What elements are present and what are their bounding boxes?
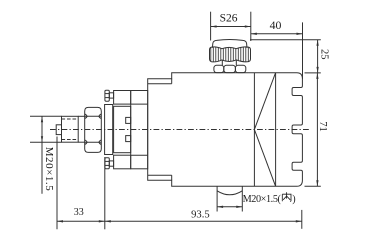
dim M20x1.5 ext bottom <box>30 141 62 143</box>
dim 25 ext top (knob top level) <box>250 39 321 41</box>
internal vertical line (spring seat right) <box>275 73 277 187</box>
knob hex nut facet 3 <box>235 65 245 72</box>
svg-text:40: 40 <box>270 18 282 32</box>
dim 40 line <box>251 33 303 35</box>
svg-text:71: 71 <box>317 121 328 132</box>
dim 25 line <box>317 40 319 73</box>
svg-text:M20×1.5(: M20×1.5( <box>243 194 282 205</box>
glyph nei <box>282 192 291 201</box>
dim 93.5 line <box>105 220 302 222</box>
upper screw neck <box>109 93 113 98</box>
knurled band outline <box>210 47 251 62</box>
thread hidden line top <box>62 118 79 120</box>
spring diagonal upper <box>254 73 275 130</box>
upper ear plate <box>114 91 131 105</box>
svg-text:25: 25 <box>318 49 329 60</box>
threaded cylinder M20 <box>62 116 79 142</box>
dim 93.5 ext right <box>301 210 303 229</box>
lower screw neck <box>109 161 113 166</box>
thread hidden line bottom <box>62 139 79 141</box>
small port lower <box>126 136 131 142</box>
small port upper <box>126 117 131 123</box>
lower ear plate <box>114 155 131 169</box>
svg-text:M20×1.5: M20×1.5 <box>43 147 55 192</box>
connector block <box>114 106 131 152</box>
knurl hatch lines <box>211 45 249 64</box>
svg-text:): ) <box>292 194 295 205</box>
knob hex nut facet 2 <box>224 65 236 72</box>
dim 40/25 ext vertical right of body <box>302 22 304 79</box>
dim 71 line <box>316 73 318 186</box>
svg-text:93.5: 93.5 <box>191 209 210 220</box>
bottom port walls <box>216 186 218 211</box>
flange divider bottom <box>131 154 148 156</box>
shank bottom line <box>78 141 85 143</box>
shank top line <box>78 115 85 117</box>
hex nut face line bottom <box>85 141 102 143</box>
body bottom-left strip line <box>148 174 172 176</box>
svg-text:S26: S26 <box>220 13 238 25</box>
inlet nose <box>56 125 61 135</box>
centerline <box>50 129 311 131</box>
valve body outline <box>148 73 303 187</box>
bottom port arc <box>217 191 242 195</box>
washer <box>105 105 113 155</box>
internal vertical line (spring seat left) <box>253 73 255 187</box>
dim 33 ext left <box>56 137 58 230</box>
spring diagonal lower <box>254 130 275 187</box>
knob stem left <box>221 60 223 65</box>
hex nut body <box>85 107 102 152</box>
dim S26 ext left <box>210 12 212 41</box>
lower screw head <box>105 158 109 169</box>
knob cap <box>212 40 247 48</box>
flange plate <box>131 91 148 169</box>
strip end vertical top <box>171 79 173 84</box>
hex nut face line top <box>85 115 102 117</box>
dim M20x1.5 line <box>41 116 43 193</box>
svg-text:33: 33 <box>74 207 84 218</box>
upper screw head <box>105 90 109 101</box>
knob hex nut facet 1 <box>214 65 224 72</box>
dim 25 ext bottom (bonnet top level) <box>305 72 321 74</box>
dim 71 ext bottom <box>305 185 321 187</box>
dim M20x1.5 ext top <box>30 115 62 117</box>
flange divider top <box>131 103 148 105</box>
dim S26 ext right <box>250 12 252 41</box>
knob stem right <box>235 60 237 65</box>
body top-left strip line <box>148 83 172 85</box>
dim M20x1.5(nei) line <box>217 206 242 208</box>
dim S26 line <box>211 26 251 28</box>
dim 33 line <box>57 220 105 222</box>
strip end vertical bottom <box>171 175 173 180</box>
dim 33/93.5 shared ext <box>104 157 106 229</box>
